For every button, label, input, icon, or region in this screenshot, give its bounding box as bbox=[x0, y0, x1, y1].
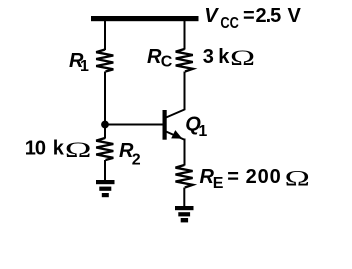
svg-text:Ω: Ω bbox=[65, 138, 92, 163]
svg-text:2.5: 2.5 bbox=[256, 5, 282, 27]
ground (R2) bbox=[96, 180, 115, 197]
svg-text:R: R bbox=[147, 46, 162, 68]
label R1 bbox=[69, 50, 89, 75]
svg-text:2: 2 bbox=[132, 152, 141, 169]
VCC supply rail bbox=[91, 16, 199, 21]
svg-text:1: 1 bbox=[80, 58, 89, 75]
wire: base wire from node A to Q1 bbox=[105, 124, 163, 126]
wire: node A to R2 bbox=[104, 125, 106, 139]
resistor RC bbox=[176, 49, 193, 72]
transistor Q1 collector lead bbox=[166, 110, 185, 118]
transistor Q1 emitter arrow bbox=[171, 130, 182, 139]
svg-text:=: = bbox=[227, 166, 239, 188]
svg-text:1: 1 bbox=[198, 123, 207, 140]
wire: emitter to RE bbox=[184, 139, 186, 166]
resistor R2 bbox=[96, 138, 113, 160]
svg-text:Ω: Ω bbox=[285, 166, 310, 191]
label R2 bbox=[119, 140, 141, 169]
wire: RC to collector bbox=[184, 72, 186, 111]
resistor R1 bbox=[96, 50, 113, 72]
label RC bbox=[147, 46, 173, 71]
label RE = 200 Ohm bbox=[200, 166, 310, 192]
svg-text:k: k bbox=[53, 138, 65, 160]
svg-text:Ω: Ω bbox=[230, 45, 255, 70]
svg-text:k: k bbox=[218, 46, 230, 68]
svg-text:=: = bbox=[243, 5, 255, 27]
label 3 kOhm bbox=[203, 45, 255, 70]
wire: RE to ground bbox=[183, 188, 185, 208]
svg-text:V: V bbox=[288, 5, 302, 27]
svg-text:C: C bbox=[161, 54, 173, 71]
svg-text:200: 200 bbox=[246, 166, 282, 188]
wire: R2 to ground bbox=[104, 160, 106, 181]
svg-text:3: 3 bbox=[203, 46, 214, 68]
resistor RE bbox=[176, 165, 193, 188]
label 10 kOhm bbox=[25, 138, 92, 163]
label Q1 bbox=[185, 114, 207, 141]
svg-text:V: V bbox=[204, 5, 219, 27]
wire: rail to RC bbox=[184, 20, 186, 50]
svg-text:E: E bbox=[213, 175, 224, 192]
transistor Q1 base bar bbox=[163, 110, 167, 140]
wire: R1 to node A bbox=[104, 72, 106, 128]
transistor Q1 emitter lead bbox=[166, 132, 184, 140]
svg-text:10: 10 bbox=[25, 138, 46, 160]
label VCC = 2.5 V bbox=[204, 5, 301, 32]
svg-text:CC: CC bbox=[220, 15, 239, 33]
ground (RE) bbox=[175, 206, 194, 222]
wire: rail to R1 bbox=[104, 20, 106, 50]
node A (junction dot) bbox=[101, 121, 109, 129]
